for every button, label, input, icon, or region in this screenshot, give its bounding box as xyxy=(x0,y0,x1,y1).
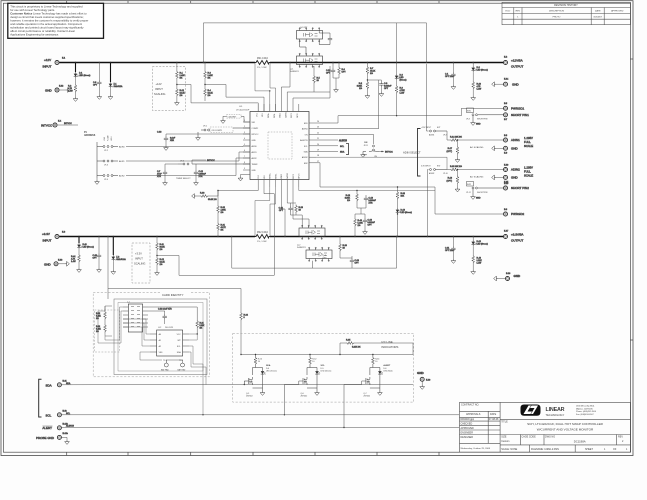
resistor R35 xyxy=(339,340,413,356)
node INTVCC timer xyxy=(192,160,215,164)
svg-text:20: 20 xyxy=(317,144,319,146)
svg-text:DATE: DATE xyxy=(490,413,497,416)
svg-text:22: 22 xyxy=(317,132,319,134)
svg-text:GND: GND xyxy=(514,274,522,278)
svg-text:SCL: SCL xyxy=(340,146,345,148)
svg-text:GATE2: GATE2 xyxy=(286,173,289,179)
svg-text:E-17: E-17 xyxy=(504,231,509,233)
jumper JP10 xyxy=(421,131,448,175)
svg-text:1%: 1% xyxy=(347,200,350,202)
capacitor C7 xyxy=(157,164,178,181)
svg-text:1%: 1% xyxy=(200,328,203,330)
revision history table xyxy=(502,2,631,24)
mosfet Q2 xyxy=(297,225,325,249)
svg-text:10: 10 xyxy=(258,361,260,363)
resistor R48 xyxy=(472,255,483,270)
svg-text:GPIO: GPIO xyxy=(297,113,299,118)
svg-text:ON: ON xyxy=(305,134,308,136)
svg-text:10K: 10K xyxy=(401,196,405,198)
svg-text:ADR1: ADR1 xyxy=(252,151,257,154)
svg-text:and reliable operation in the: and reliable operation in the actual app… xyxy=(10,22,82,26)
thick stub Z1 xyxy=(76,63,111,83)
svg-text:INTVCC: INTVCC xyxy=(41,124,53,128)
notice box xyxy=(8,3,104,38)
LT corporate logo xyxy=(521,405,597,417)
svg-text:R-15 10K 1%: R-15 10K 1% xyxy=(450,166,462,168)
svg-text:E-19: E-19 xyxy=(504,183,509,185)
card identity solid box xyxy=(114,299,207,375)
svg-text:10: 10 xyxy=(317,80,320,82)
svg-text:REVISION HISTORY: REVISION HISTORY xyxy=(554,4,578,7)
node ALERT net xyxy=(316,139,348,142)
svg-text:CONTRACT NO.: CONTRACT NO. xyxy=(461,404,479,407)
svg-text:3.3V INPUT: 3.3V INPUT xyxy=(421,166,431,168)
svg-text:C-14 0.1uF X7R: C-14 0.1uF X7R xyxy=(158,309,172,311)
svg-text:E-6: E-6 xyxy=(504,209,508,211)
terminal SCL xyxy=(46,410,68,417)
svg-text:4: 4 xyxy=(244,138,245,140)
svg-text:INPUT: INPUT xyxy=(43,65,52,69)
card identity dashed box xyxy=(93,292,209,377)
terminal SDA xyxy=(46,380,68,387)
svg-text:07-08-08: 07-08-08 xyxy=(489,418,499,421)
svg-text:ALERT#: ALERT# xyxy=(66,425,75,428)
zener Z1 xyxy=(109,63,123,96)
svg-text:1%, 1.5W: 1%, 1.5W xyxy=(257,241,267,243)
svg-text:E-13: E-13 xyxy=(58,259,63,261)
resistor R12 xyxy=(176,85,186,102)
ground xyxy=(361,153,366,157)
svg-text:ECO: ECO xyxy=(506,11,511,13)
resistor R13 xyxy=(156,237,166,256)
svg-text:1%: 1% xyxy=(221,212,224,214)
wire src1 pin xyxy=(293,66,330,104)
svg-text:Customer Notice Linear Technol: Customer Notice Linear Technology has ma… xyxy=(10,11,87,15)
resistor R5 xyxy=(313,66,330,92)
svg-text:OPT: OPT xyxy=(93,258,98,260)
jumper JP6 timer select xyxy=(176,161,250,181)
wire UV tap xyxy=(204,84,264,112)
resistor R9 xyxy=(395,85,405,116)
svg-text:OPT: OPT xyxy=(384,88,389,90)
svg-text:X7R: X7R xyxy=(369,203,373,205)
capacitor C21 xyxy=(279,203,296,215)
svg-text:ADR0: ADR0 xyxy=(119,146,125,149)
svg-text:2N7002: 2N7002 xyxy=(363,396,370,398)
ground pin10 xyxy=(238,177,243,181)
wire PWRGD1 net xyxy=(316,108,503,123)
svg-text:+12V/5A: +12V/5A xyxy=(511,59,523,63)
svg-text:24LC025: 24LC025 xyxy=(165,327,174,329)
svg-text:EXT: EXT xyxy=(437,127,441,129)
svg-text:TITLE: TITLE xyxy=(501,420,508,423)
svg-text:GATE1: GATE1 xyxy=(284,112,287,118)
svg-text:OPT 22uF: OPT 22uF xyxy=(445,250,455,252)
wire gate loop ch2 xyxy=(232,237,397,269)
wire gate1 pin xyxy=(287,92,314,104)
led D2 xyxy=(471,63,488,82)
svg-text:EN2: EN2 xyxy=(304,163,308,165)
node card identity label xyxy=(162,293,184,297)
ground xyxy=(65,440,70,444)
svg-text:LINEAR: LINEAR xyxy=(546,407,565,413)
node bat pad 2 xyxy=(166,360,186,372)
svg-text:LED (Green): LED (Green) xyxy=(321,370,332,373)
svg-text:PWRGD1: PWRGD1 xyxy=(511,107,524,111)
svg-text:design a circuit that meets cu: design a circuit that meets customer-sup… xyxy=(10,15,83,19)
resistor R20 xyxy=(339,237,348,259)
svg-text:TP-1: TP-1 xyxy=(163,360,167,362)
svg-text:VSS: VSS xyxy=(159,352,164,354)
ground xyxy=(455,158,460,162)
svg-text:CARD IDENTITY: CARD IDENTITY xyxy=(162,293,184,297)
svg-text:SEN+: SEN+ xyxy=(268,112,270,118)
capacitor C18 xyxy=(157,132,250,147)
svg-text:E-20: E-20 xyxy=(426,380,431,382)
svg-text:SHORTPIN: SHORTPIN xyxy=(477,119,488,121)
svg-text:OPT: OPT xyxy=(342,72,347,74)
svg-text:APPROVED: APPROVED xyxy=(461,427,475,430)
wire vdd1 pin xyxy=(281,62,290,104)
svg-text:9: 9 xyxy=(244,168,245,170)
capacitor C15 xyxy=(93,237,102,269)
resistor R34 xyxy=(240,312,249,355)
led D3 xyxy=(395,63,407,86)
svg-text:SW1: SW1 xyxy=(467,111,471,113)
resistor R33 xyxy=(196,193,218,202)
resistor R16c xyxy=(96,306,112,336)
svg-text:E-2: E-2 xyxy=(504,57,508,59)
terminal E8 ADIN1 xyxy=(504,135,534,148)
svg-text:OPT 22uF: OPT 22uF xyxy=(445,76,455,78)
wire card vcc feed xyxy=(107,236,108,289)
svg-text:ADR2: ADR2 xyxy=(119,175,125,178)
svg-text:CHECKED: CHECKED xyxy=(461,423,473,426)
svg-text:ENGINEER: ENGINEER xyxy=(461,432,474,435)
sense resistor RS2 xyxy=(255,235,270,239)
svg-text:DRAWN gpp: DRAWN gpp xyxy=(461,418,475,421)
ground xyxy=(471,96,476,100)
terminal E18 gnd xyxy=(494,273,521,281)
thick stub Z2 xyxy=(79,237,113,256)
wire u2 left xyxy=(123,319,162,360)
svg-text:AO SCALING: AO SCALING xyxy=(470,176,484,179)
wire indicator rail xyxy=(240,354,413,355)
terminal E4 INTVCC xyxy=(41,121,78,128)
terminal E9 gnd xyxy=(492,146,519,155)
svg-text:OPT: OPT xyxy=(93,85,98,87)
+12V power rail xyxy=(59,62,503,64)
ground xyxy=(451,259,456,263)
svg-text:ADIN2: ADIN2 xyxy=(302,156,308,159)
node AO scaling 1 xyxy=(470,146,484,149)
capacitor C22 xyxy=(326,63,336,79)
wire ON net xyxy=(316,134,374,144)
terminal E13 gnd xyxy=(44,259,69,266)
led D12 xyxy=(471,237,488,256)
svg-text:A1: A1 xyxy=(159,339,161,342)
svg-text:OV2: OV2 xyxy=(258,175,260,179)
svg-text:VCC: VCC xyxy=(177,334,182,336)
svg-text:8: 8 xyxy=(244,162,245,164)
title block xyxy=(460,402,631,452)
resistor R31 xyxy=(217,223,227,237)
svg-text:JP-11: JP-11 xyxy=(363,145,368,147)
jumper JP11 on/off xyxy=(363,142,379,158)
terminal E17 +3.3V/5A output xyxy=(504,231,524,243)
svg-text:ADIN2: ADIN2 xyxy=(511,168,520,172)
wire adin vertical xyxy=(427,64,429,131)
svg-text:ADIN SELECT: ADIN SELECT xyxy=(403,151,421,155)
svg-text:GND: GND xyxy=(45,89,53,93)
resistor R15c xyxy=(96,306,106,322)
transistor cluster Q6 SCL xyxy=(284,355,332,416)
jumper ADR0 xyxy=(103,146,105,148)
svg-text:ADIN1: ADIN1 xyxy=(511,138,520,142)
jumper JP8 xyxy=(466,108,503,121)
rail2 junction dots xyxy=(78,236,474,237)
svg-text:2: 2 xyxy=(622,440,624,443)
svg-text:1%: 1% xyxy=(160,249,163,251)
svg-text:HIGH: HIGH xyxy=(111,136,113,141)
svg-text:E-10: E-10 xyxy=(504,164,509,166)
jumper ADR1 xyxy=(103,160,105,162)
svg-text:FILENAME: 1198A-2.DSN: FILENAME: 1198A-2.DSN xyxy=(531,448,559,451)
wire PWRGD2 net xyxy=(316,163,503,215)
svg-text:18: 18 xyxy=(317,155,319,157)
wire bus SEN2 xyxy=(255,187,276,237)
svg-text:GPO3: GPO3 xyxy=(299,174,301,179)
svg-text:1%: 1% xyxy=(370,73,373,75)
svg-text:1%: 1% xyxy=(96,331,99,333)
ground xyxy=(77,268,82,272)
terminal E6 PWRGD2 xyxy=(504,209,525,216)
svg-text:SHORT PIN1: SHORT PIN1 xyxy=(511,113,529,117)
ground xyxy=(315,391,320,395)
svg-text:A2: A2 xyxy=(159,345,161,348)
mosfet Q4 OPT xyxy=(297,27,333,54)
svg-text:COMP2: COMP2 xyxy=(252,128,259,130)
svg-text:6: 6 xyxy=(244,150,245,152)
ground xyxy=(155,271,160,275)
led D13 xyxy=(396,208,412,237)
svg-text:1630 McCarthy Blvd.: 1630 McCarthy Blvd. xyxy=(576,405,595,408)
svg-text:R-16: R-16 xyxy=(448,178,453,180)
svg-text:R-17: R-17 xyxy=(448,148,453,150)
svg-text:ALERTN: ALERTN xyxy=(300,139,308,142)
svg-text:+12V: +12V xyxy=(156,82,162,86)
svg-text:SMAJ5.0A: SMAJ5.0A xyxy=(116,258,126,261)
svg-text:Si4854DY: Si4854DY xyxy=(290,71,300,73)
U1 bottom pins xyxy=(258,172,301,187)
svg-text:OPT: OPT xyxy=(355,263,360,265)
ground xyxy=(455,188,460,192)
svg-text:Si4842DY: Si4842DY xyxy=(297,247,307,249)
svg-text:C0603MT: C0603MT xyxy=(228,117,238,119)
svg-text:OPT: OPT xyxy=(368,225,373,227)
svg-text:SCL: SCL xyxy=(66,413,71,415)
svg-text:SDA: SDA xyxy=(304,150,309,153)
U1 left pins xyxy=(241,120,260,177)
terminal E12 gnd xyxy=(45,86,70,93)
svg-text:OPT: OPT xyxy=(279,210,284,212)
ground xyxy=(111,270,116,274)
svg-text:1%: 1% xyxy=(221,230,224,232)
sense resistor RS1 xyxy=(255,61,270,65)
svg-text:LED (Red): LED (Red) xyxy=(383,371,392,373)
svg-text:E-13b: E-13b xyxy=(63,433,69,435)
svg-text:X7R: X7R xyxy=(157,176,161,178)
wire divider tap xyxy=(176,84,258,112)
wire ADR0 xyxy=(126,145,250,148)
svg-text:SCALE: SCALE xyxy=(524,144,533,148)
svg-text:SMAJ12A: SMAJ12A xyxy=(114,85,124,88)
svg-text:Q4 OPT: Q4 OPT xyxy=(300,27,308,29)
resistor R10 xyxy=(472,81,482,96)
svg-text:10: 10 xyxy=(312,361,314,363)
svg-text:PROBE GND: PROBE GND xyxy=(36,436,55,440)
rail1 junction dots xyxy=(75,62,474,63)
jumper JP1 on-comp xyxy=(196,126,250,141)
resistor R23 gate2 xyxy=(295,205,304,227)
svg-text:BAT PAD: BAT PAD xyxy=(178,369,186,372)
svg-text:JP-12: JP-12 xyxy=(466,192,471,194)
wire card top link xyxy=(108,289,241,313)
svg-text:SDA: SDA xyxy=(177,351,182,354)
svg-text:ALERT#: ALERT# xyxy=(339,139,348,142)
ground xyxy=(194,181,199,185)
svg-text:24: 24 xyxy=(317,121,319,123)
svg-text:ADR2: ADR2 xyxy=(252,157,257,160)
svg-text:FLOAT: FLOAT xyxy=(106,134,109,141)
terminal E2 +12V/5A output xyxy=(504,57,524,69)
svg-text:E-14: E-14 xyxy=(504,79,509,81)
capacitor C11 xyxy=(445,237,456,260)
wire r19 down xyxy=(355,208,361,214)
svg-text:TIMER: TIMER xyxy=(252,164,259,166)
svg-text:INTVCC: INTVCC xyxy=(385,152,393,154)
svg-text:RS1 0.010: RS1 0.010 xyxy=(257,58,269,60)
svg-text:E-1: E-1 xyxy=(62,58,66,60)
svg-text:23: 23 xyxy=(317,127,319,129)
connector J1 xyxy=(123,302,148,333)
svg-text:This circuit is proprietary to: This circuit is proprietary to Linear Te… xyxy=(10,4,83,8)
svg-text:U-2: U-2 xyxy=(158,327,162,329)
svg-text:A0: A0 xyxy=(159,333,161,336)
svg-text:TP-2: TP-2 xyxy=(179,360,183,362)
svg-text:1%: 1% xyxy=(359,88,362,90)
ground xyxy=(471,270,476,274)
terminal PROBE GND xyxy=(36,433,69,440)
svg-text:CAGE CODE: CAGE CODE xyxy=(521,436,536,439)
svg-text:2: 2 xyxy=(244,126,245,128)
svg-text:GND: GND xyxy=(511,176,519,180)
terminal E10 ADIN2 xyxy=(504,164,534,177)
svg-text:SDA: SDA xyxy=(66,382,71,385)
svg-text:ADIN2: ADIN2 xyxy=(429,172,434,175)
svg-text:LED (Green): LED (Green) xyxy=(83,247,95,249)
ground xyxy=(334,88,339,92)
capacitor C0603 pad xyxy=(223,115,250,123)
svg-text:X7R: X7R xyxy=(199,176,203,178)
svg-text:SHEET: SHEET xyxy=(585,448,594,451)
+12V input scaling dashed box xyxy=(152,67,185,111)
svg-text:1.4W: 1.4W xyxy=(68,91,73,93)
svg-text:OUTPUT: OUTPUT xyxy=(511,239,524,243)
svg-text:+12V: +12V xyxy=(44,58,51,62)
svg-text:GND: GND xyxy=(511,147,519,151)
capacitor C13 xyxy=(364,195,377,208)
svg-text:LED (Green): LED (Green) xyxy=(79,75,91,77)
svg-text:+3.3V: +3.3V xyxy=(42,232,50,236)
svg-text:DESCRIPTION: DESCRIPTION xyxy=(549,11,564,13)
svg-text:GND: GND xyxy=(476,124,481,126)
terminal E5 PWRGD1 xyxy=(504,103,525,111)
svg-text:53.6K 1%: 53.6K 1% xyxy=(208,199,217,201)
wire bus UV2 xyxy=(217,187,258,196)
svg-text:however, it remains the custom: however, it remains the customer's respo… xyxy=(10,19,88,23)
capacitor C9 xyxy=(367,79,392,92)
svg-text:2N7002: 2N7002 xyxy=(301,396,308,398)
svg-text:GND: GND xyxy=(476,198,481,200)
svg-text:19: 19 xyxy=(317,149,319,151)
svg-text:VDD1: VDD1 xyxy=(280,113,282,118)
terminal E7 short pin1 xyxy=(504,113,530,121)
svg-text:DATE: DATE xyxy=(595,10,601,13)
resistor R36 xyxy=(396,186,406,208)
svg-text:1%: 1% xyxy=(96,318,99,320)
svg-text:ADIN1: ADIN1 xyxy=(302,128,308,131)
ground xyxy=(451,85,456,89)
svg-text:AO SCALING: AO SCALING xyxy=(470,146,484,149)
svg-text:ON COMP1: ON COMP1 xyxy=(212,130,224,132)
svg-text:1: 1 xyxy=(604,448,606,451)
svg-text:10: 10 xyxy=(299,210,302,212)
svg-text:10: 10 xyxy=(343,248,346,250)
jumper JP9 xyxy=(421,127,447,137)
svg-text:1%: 1% xyxy=(180,95,183,97)
ground xyxy=(378,391,383,395)
U1 right pins xyxy=(300,121,319,165)
transistor cluster Q7 ALERT xyxy=(343,355,392,429)
wire ADR3 net xyxy=(316,157,447,169)
node bat pad 1 xyxy=(161,360,169,372)
svg-text:SCH, LTC4222CUF, DUAL HOT SWAP: SCH, LTC4222CUF, DUAL HOT SWAP CONTROLLE… xyxy=(527,422,604,426)
svg-text:SEN-: SEN- xyxy=(274,113,276,118)
resistor R14 xyxy=(447,131,503,141)
+3.3V input scaling dashed box xyxy=(132,243,150,283)
ground xyxy=(95,178,100,184)
resistor R17 xyxy=(447,139,459,158)
zener Z2 xyxy=(112,237,127,271)
ground xyxy=(97,95,102,99)
svg-text:ADR0: ADR0 xyxy=(252,145,257,148)
svg-text:ALERT: ALERT xyxy=(42,426,52,430)
svg-text:JP-1: JP-1 xyxy=(203,126,208,128)
wire SCL line xyxy=(62,413,459,416)
svg-text:SIZE: SIZE xyxy=(501,436,507,439)
svg-text:(Green): (Green) xyxy=(400,80,407,82)
svg-text:LED (Green): LED (Green) xyxy=(401,212,413,214)
wire SDA line xyxy=(62,382,413,385)
U1 exposed pad xyxy=(268,132,292,159)
terminal E1 +12V input xyxy=(43,58,67,69)
wire u2 right xyxy=(189,333,206,415)
svg-text:for use with Linear Technology: for use with Linear Technology parts. xyxy=(10,8,55,12)
svg-text:C-18: C-18 xyxy=(157,132,162,134)
svg-text:DC1198A: DC1198A xyxy=(574,440,586,444)
svg-text:LED (Green): LED (Green) xyxy=(266,370,277,373)
